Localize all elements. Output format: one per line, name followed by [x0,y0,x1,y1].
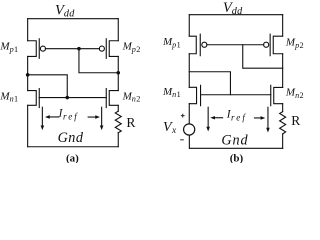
svg-text:Mn1: Mn1 [162,86,181,99]
svg-text:Mn2: Mn2 [285,87,304,100]
svg-text:Gnd: Gnd [221,133,248,149]
svg-text:Vdd: Vdd [223,0,243,17]
svg-text:Mn1: Mn1 [0,90,18,103]
svg-text:Iref: Iref [58,108,79,122]
svg-text:Iref: Iref [226,108,247,122]
svg-text:Mn2: Mn2 [122,90,141,103]
svg-text:Mp1: Mp1 [162,36,181,49]
svg-text:Mp1: Mp1 [0,41,18,54]
svg-text:Mp2: Mp2 [285,36,304,49]
svg-text:(a): (a) [66,152,79,163]
svg-text:Vdd: Vdd [55,2,75,19]
svg-text:R: R [291,113,300,128]
svg-text:(b): (b) [230,153,244,164]
svg-text:Mp2: Mp2 [122,40,141,53]
svg-text:Gnd: Gnd [58,130,84,146]
svg-text:Vx: Vx [163,120,177,136]
svg-text:R: R [126,115,135,130]
